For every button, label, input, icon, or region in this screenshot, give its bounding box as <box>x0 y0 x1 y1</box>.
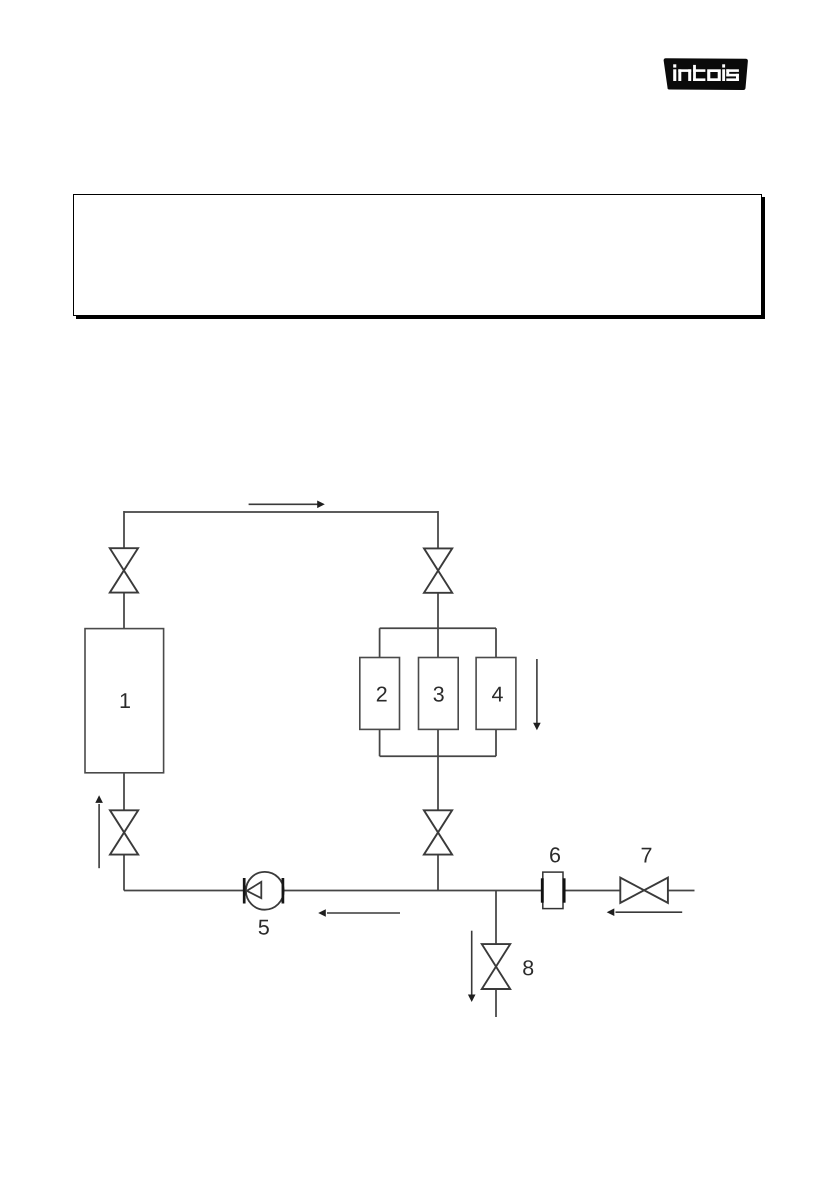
vessel 4 <box>476 658 516 730</box>
vessel 1 <box>85 629 164 773</box>
label 8 <box>523 960 533 975</box>
valve V3 top-right <box>424 548 452 592</box>
pump flange left <box>243 878 246 904</box>
wire drain below valve 8 <box>495 989 497 1017</box>
wire valve 7 to inlet end <box>668 890 694 892</box>
valve 7 inlet <box>620 878 668 903</box>
logo wordmark intois <box>673 64 739 81</box>
wire right riser from header to valve V3 <box>437 511 439 548</box>
flow arrow left (bottom main, pump side) <box>318 909 400 917</box>
wire valve V1 to vessel 1 <box>123 593 125 629</box>
pump flange right <box>282 878 285 904</box>
wire manifold drop to vessel 4 <box>495 628 497 657</box>
empty framed text box with drop shadow <box>73 194 762 316</box>
device 6 right gasket bar <box>563 878 566 902</box>
wire vessel 3 riser to bottom manifold and valve V4 <box>437 729 439 810</box>
flow arrow down (beside vessels 2-4) <box>533 659 541 730</box>
wire left riser from header to valve V1 <box>123 511 125 548</box>
valve 8 drain <box>482 944 510 989</box>
label 3 <box>434 686 444 701</box>
label 5 <box>259 920 269 935</box>
label 1 <box>121 693 130 708</box>
wire valve V4 to bottom main junction <box>437 855 439 891</box>
label 6 <box>550 847 560 862</box>
flow arrow down (drain beside valve 8) <box>468 931 476 1002</box>
wire manifold drop to vessel 2 <box>379 628 381 657</box>
intois logo <box>652 48 762 98</box>
wire vessel 2 to bottom manifold <box>379 729 381 756</box>
valve V2 bottom-left <box>110 810 138 854</box>
vessel 2 <box>360 658 400 730</box>
label 2 <box>377 686 387 701</box>
pump impeller triangle <box>247 882 261 898</box>
wire vessel 4 to bottom manifold <box>495 729 497 756</box>
valve V4 center-bottom <box>424 810 452 854</box>
wire vessel 1 to valve V2 <box>123 773 125 811</box>
wire bottom main line <box>124 890 620 892</box>
vessel 3 <box>419 658 459 730</box>
inline device 6 <box>542 872 564 909</box>
pump 5 <box>244 872 283 910</box>
wire top header (node A to node B) <box>124 511 438 513</box>
device 6 left gasket bar <box>541 878 544 902</box>
label 4 <box>492 687 503 702</box>
wire top manifold <box>380 627 496 629</box>
valve V1 top-left <box>110 548 138 592</box>
wire bottom manifold <box>380 755 496 757</box>
flow arrow right (top header) <box>249 501 325 509</box>
label 7 <box>642 848 652 863</box>
flow arrow up (left riser) <box>95 795 103 868</box>
logo black keystone plate <box>664 58 748 90</box>
wire valve V2 to bottom main <box>123 855 125 891</box>
wire valve V3 to top manifold and into vessel 3 <box>437 593 439 658</box>
wire tee drop to valve 8 <box>495 891 497 945</box>
flow arrow left (inlet, below valve 7) <box>607 908 683 916</box>
